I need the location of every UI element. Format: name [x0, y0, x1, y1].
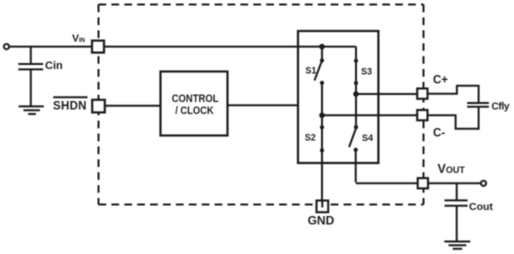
svg-text:SHDN: SHDN: [53, 100, 87, 112]
input terminal: [4, 44, 9, 49]
svg-text:Cout: Cout: [469, 201, 493, 213]
node dot S3 top contact: [354, 59, 358, 63]
capacitor Cfly: [467, 102, 489, 104]
op block CONTROL/CLOCK box U1: [161, 72, 228, 136]
capacitor Cout: [445, 199, 468, 201]
pin SHDN: [92, 100, 105, 113]
wire Cfly bottom loop: [428, 107, 479, 129]
svg-text:C+: C+: [433, 75, 448, 87]
wire stub into GND pad: [321, 201, 323, 208]
svg-text:C-: C-: [433, 128, 445, 140]
wire C-: [322, 114, 417, 116]
node dot S4 bottom contact: [354, 148, 358, 152]
pin VIN: [92, 41, 104, 53]
IC boundary dashed box: [99, 5, 424, 205]
node dot S1 bottom contact: [320, 81, 324, 85]
node dot S2 top contact: [320, 125, 324, 129]
capacitor Cin: [18, 63, 43, 65]
switch S2 closed: [321, 115, 323, 163]
wire C+: [356, 93, 417, 95]
wire S1 top stub: [321, 47, 323, 61]
svg-text:S1: S1: [305, 65, 316, 75]
node dot S4 top contact: [354, 125, 358, 129]
svg-text:S2: S2: [305, 132, 316, 142]
wire GND branch: [321, 163, 323, 207]
wire VOUT to terminal: [428, 182, 481, 184]
svg-text:CONTROL: CONTROL: [172, 93, 219, 105]
wire VIN: [9, 46, 356, 48]
node dot S2 bottom contact: [320, 148, 324, 152]
wire Cout branch: [456, 183, 458, 200]
wire right branch corner: [355, 47, 357, 61]
pin C-: [417, 110, 427, 120]
switch network box: [298, 31, 378, 163]
ground (Cin): [19, 105, 44, 107]
ground (Cout): [444, 241, 470, 243]
node dot VIN/S1 junction: [319, 44, 325, 50]
wire Cin to ground: [30, 69, 32, 106]
wire Cout to ground: [456, 206, 458, 241]
wire S4 bottom: [355, 150, 357, 183]
wire to VOUT pin: [356, 182, 418, 184]
output terminal: [481, 181, 486, 186]
pin VOUT: [418, 178, 428, 188]
svg-text:GND: GND: [308, 214, 335, 228]
node dot S3 bottom contact: [354, 81, 358, 85]
node dot S1 top contact: [320, 58, 324, 62]
svg-text:/ CLOCK: / CLOCK: [175, 105, 214, 117]
wire S1 bottom to node: [321, 83, 323, 116]
SHDN overline: [53, 96, 87, 98]
svg-text:S3: S3: [361, 66, 372, 76]
switch S1 blade: [315, 61, 323, 81]
pin C+: [417, 89, 427, 99]
wire control to switch box: [228, 104, 299, 106]
wire SHDN: [105, 105, 161, 107]
switch S3 closed: [355, 61, 357, 94]
svg-text:Cin: Cin: [45, 60, 63, 72]
wire Cin branch: [30, 47, 32, 64]
wire S4 branch: [355, 94, 357, 127]
pin GND: [317, 201, 329, 213]
wire Cfly top loop: [428, 86, 479, 103]
svg-text:Cfly: Cfly: [492, 102, 510, 113]
switch S4 blade: [349, 128, 356, 148]
svg-text:VOUT: VOUT: [438, 162, 466, 176]
node dot C+ junction: [353, 91, 359, 97]
node dot C- junction: [319, 113, 325, 119]
svg-text:S4: S4: [362, 133, 373, 143]
